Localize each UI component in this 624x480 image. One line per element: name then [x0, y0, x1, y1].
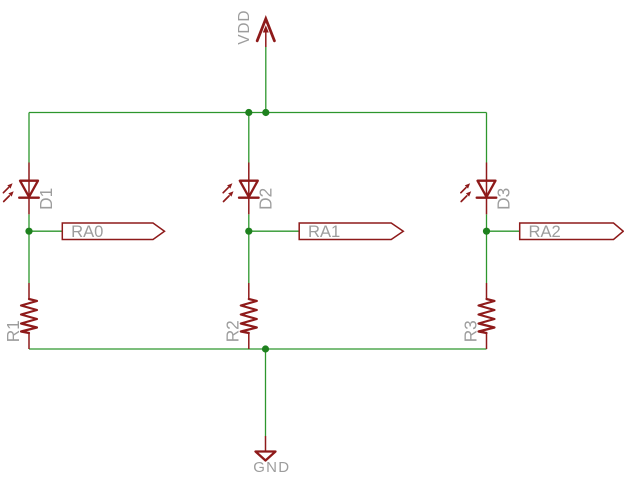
- svg-text:R3: R3: [460, 320, 480, 342]
- svg-text:RA0: RA0: [71, 222, 103, 241]
- svg-text:D1: D1: [36, 188, 56, 210]
- svg-text:GND: GND: [253, 459, 290, 476]
- svg-text:R2: R2: [223, 320, 243, 342]
- svg-text:RA1: RA1: [308, 222, 340, 241]
- svg-text:VDD: VDD: [236, 10, 253, 45]
- svg-text:RA2: RA2: [529, 222, 561, 241]
- svg-text:D3: D3: [493, 188, 513, 210]
- svg-text:R1: R1: [3, 320, 23, 342]
- svg-text:D2: D2: [256, 188, 276, 210]
